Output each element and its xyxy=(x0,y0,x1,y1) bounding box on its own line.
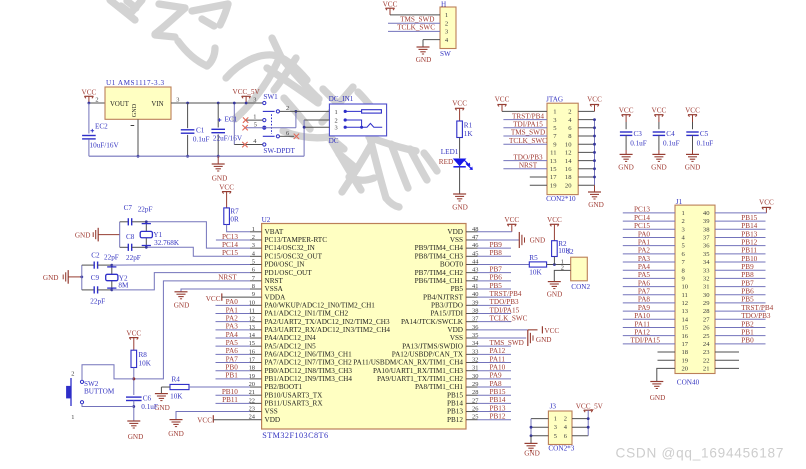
wire R1 to LED1 xyxy=(459,138,461,159)
resistor R5 10K xyxy=(529,254,546,277)
svg-text:GND: GND xyxy=(128,433,144,441)
svg-text:PB6/TIM4_CH1: PB6/TIM4_CH1 xyxy=(415,277,464,285)
wire PB15 pin28 xyxy=(478,394,512,396)
wire PB8 pin45 xyxy=(478,255,512,257)
svg-text:16: 16 xyxy=(682,333,689,340)
no-ERC mark pin1 xyxy=(243,117,248,122)
svg-text:PA13/JTMS/SWDIO: PA13/JTMS/SWDIO xyxy=(402,342,463,350)
wire TMS_SWD pin34 xyxy=(478,345,512,347)
svg-text:GND: GND xyxy=(618,163,634,171)
wire PB0 J1 pin24 xyxy=(715,343,766,345)
capacitor C9 22pF xyxy=(82,274,112,305)
svg-text:29: 29 xyxy=(703,300,710,307)
svg-text:0.1uF: 0.1uF xyxy=(697,139,714,147)
svg-text:J2: J2 xyxy=(567,248,574,256)
svg-text:PB7/TIM4_CH2: PB7/TIM4_CH2 xyxy=(415,269,464,277)
wire TRST/PB4 pin40 xyxy=(478,296,512,298)
ground (VSS pin35) xyxy=(528,330,552,346)
wire SW1 pin1 (NC) xyxy=(246,119,263,121)
wire R2 to BOOT0 node xyxy=(553,257,555,265)
wire PB14 pin27 xyxy=(478,402,512,404)
svg-text:35: 35 xyxy=(703,251,710,258)
wire PA5 pin15 xyxy=(216,345,251,347)
svg-text:GND: GND xyxy=(452,204,468,212)
svg-text:PC14/OSC32_IN: PC14/OSC32_IN xyxy=(265,244,316,252)
svg-text:2: 2 xyxy=(335,117,338,124)
no-ERC mark pin4 xyxy=(242,142,247,147)
svg-text:15: 15 xyxy=(550,166,557,173)
wire J1 pin23 stub xyxy=(715,351,739,353)
svg-text:20: 20 xyxy=(682,366,689,373)
wire PB15 J1 pin39 xyxy=(715,220,766,222)
wire PB0 pin18 xyxy=(216,370,251,372)
svg-text:8M: 8M xyxy=(118,281,129,289)
power flag VCC (VDD pin36) xyxy=(478,326,560,335)
svg-text:VCC: VCC xyxy=(587,96,602,104)
svg-text:5: 5 xyxy=(554,433,557,440)
svg-text:PA2/UART2_TX/ADC12_IN2/TIM2_CH: PA2/UART2_TX/ADC12_IN2/TIM2_CH3 xyxy=(265,318,390,326)
svg-text:39: 39 xyxy=(703,218,710,225)
svg-text:32: 32 xyxy=(703,275,710,282)
svg-text:PD1/OSC_OUT: PD1/OSC_OUT xyxy=(265,269,313,277)
wire PB10 J1 pin34 xyxy=(715,261,766,263)
svg-text:VCC: VCC xyxy=(759,199,774,207)
svg-text:0.1uF: 0.1uF xyxy=(193,135,210,143)
svg-text:PA10/UART1_RX/TIM1_CH3: PA10/UART1_RX/TIM1_CH3 xyxy=(373,367,463,375)
svg-text:15: 15 xyxy=(682,325,689,332)
wire PB10 pin21 xyxy=(216,394,251,396)
wire TCLK_SWC pin37 xyxy=(478,321,512,323)
svg-text:1: 1 xyxy=(71,414,74,421)
wire Y2 to OSC_OUT pin6 xyxy=(112,273,250,290)
svg-text:1: 1 xyxy=(335,109,338,116)
svg-text:C8: C8 xyxy=(126,233,135,241)
svg-text:3: 3 xyxy=(176,96,179,103)
wire PA10 J1 pin14 xyxy=(623,318,675,320)
wire J1 pin20 to ground xyxy=(657,368,675,381)
wire PA5 J1 pin9 xyxy=(623,277,675,279)
svg-text:C2: C2 xyxy=(91,251,100,259)
switch SW1 SW-DPDT xyxy=(253,93,295,155)
svg-text:40: 40 xyxy=(703,210,710,217)
svg-text:VIN: VIN xyxy=(151,101,163,108)
svg-text:VCC: VCC xyxy=(126,330,141,338)
wire VCC to U1 pin2 xyxy=(89,102,105,104)
wire PA11 J1 pin15 xyxy=(623,326,675,328)
ground (J1) xyxy=(650,382,666,403)
power flag VCC (VDDA pin9) xyxy=(206,293,250,302)
wire VSS pin47 to ground xyxy=(478,239,519,241)
wire NRST net xyxy=(134,281,250,379)
wire SW1 common2 to DC jack xyxy=(280,110,330,112)
wire Y2 to OSC_IN pin5 xyxy=(112,263,250,266)
svg-text:GND: GND xyxy=(547,291,563,299)
svg-text:SW: SW xyxy=(440,50,451,58)
svg-text:24: 24 xyxy=(703,341,710,348)
wire JTAG pin2 to VCC xyxy=(578,110,594,112)
wire PB11 J1 pin35 xyxy=(715,253,766,255)
svg-text:14: 14 xyxy=(682,316,689,323)
svg-text:CON40: CON40 xyxy=(677,378,700,386)
svg-text:GND: GND xyxy=(168,430,184,438)
svg-text:23: 23 xyxy=(703,349,710,356)
svg-text:13: 13 xyxy=(550,158,557,165)
wire H pin3 xyxy=(388,30,440,32)
svg-text:VCC: VCC xyxy=(219,184,234,192)
wire Y1 to PC15 pin4 xyxy=(146,247,250,256)
wire PB13 J1 pin37 xyxy=(715,236,766,238)
svg-text:32.768K: 32.768K xyxy=(154,239,180,247)
svg-text:10: 10 xyxy=(565,141,572,148)
svg-text:PB13: PB13 xyxy=(447,408,463,416)
resistor R7 0R xyxy=(224,207,239,224)
wire PC15 J1 pin3 xyxy=(623,228,675,230)
svg-text:VCC: VCC xyxy=(685,107,700,115)
connector J1 CON40 xyxy=(675,198,715,386)
svg-text:GND: GND xyxy=(651,163,667,171)
svg-text:22uF/16V: 22uF/16V xyxy=(213,134,243,142)
wire J1 pin22 stub xyxy=(715,359,739,361)
watermark xyxy=(110,0,437,207)
wire JTAG even-pin ground bus xyxy=(594,120,596,186)
svg-text:TMS_SWD: TMS_SWD xyxy=(400,15,434,23)
capacitor C6 0.1uF xyxy=(126,395,158,411)
svg-text:U2: U2 xyxy=(262,216,271,224)
svg-text:R5: R5 xyxy=(529,254,538,262)
svg-text:U1 AMS1117-3.3: U1 AMS1117-3.3 xyxy=(106,79,165,87)
capacitor EC2 10uF/16V xyxy=(82,103,119,156)
svg-text:PB10/USART3_TX: PB10/USART3_TX xyxy=(265,391,324,399)
svg-text:EC2: EC2 xyxy=(95,122,108,130)
svg-text:19: 19 xyxy=(682,357,689,364)
svg-text:EC1: EC1 xyxy=(225,115,238,123)
svg-text:TCLK_SWC: TCLK_SWC xyxy=(397,24,435,32)
svg-text:VDDA: VDDA xyxy=(265,293,287,301)
wire PA3 J1 pin7 xyxy=(623,261,675,263)
svg-text:PC15/OSC32_OUT: PC15/OSC32_OUT xyxy=(265,252,323,260)
wire PA2 pin12 xyxy=(216,321,251,323)
power flag VCC (JTAG pin1) xyxy=(495,96,510,112)
svg-text:30: 30 xyxy=(703,292,710,299)
svg-text:12: 12 xyxy=(682,300,689,307)
wire PA6 pin16 xyxy=(216,353,251,355)
wire J1 pin21 stub xyxy=(715,367,739,369)
svg-text:22pF: 22pF xyxy=(126,254,141,262)
svg-text:PA1/ADC12_IN1/TIM_CH2: PA1/ADC12_IN1/TIM_CH2 xyxy=(265,310,349,318)
wire PB5 pin41 xyxy=(478,288,512,290)
svg-text:VDD: VDD xyxy=(447,326,463,334)
svg-text:34: 34 xyxy=(703,259,710,266)
svg-text:CSDN @qq_1694456187: CSDN @qq_1694456187 xyxy=(616,446,785,461)
svg-text:CON2*10: CON2*10 xyxy=(546,195,576,203)
svg-text:22: 22 xyxy=(703,357,710,364)
svg-text:VCC: VCC xyxy=(383,1,398,9)
svg-text:PB1/ADC12_IN9/TIM3_CH4: PB1/ADC12_IN9/TIM3_CH4 xyxy=(265,375,353,383)
capacitor C2 22pF xyxy=(82,251,119,268)
svg-text:2: 2 xyxy=(445,20,448,27)
svg-text:CON2: CON2 xyxy=(571,283,590,291)
wire PA12 pin33 xyxy=(478,353,512,355)
wire JTAG row 3 xyxy=(503,127,547,129)
svg-text:25: 25 xyxy=(703,333,710,340)
wire SW1 pin4 riser to VCC_5V xyxy=(233,103,235,145)
wire PA9 pin30 xyxy=(478,378,512,380)
wire PC14 J1 pin2 xyxy=(623,220,675,222)
svg-text:3: 3 xyxy=(554,424,557,431)
wire J1 pin18 stub xyxy=(658,351,676,353)
svg-text:PA7/ADC12_IN7/TIM3_CH2: PA7/ADC12_IN7/TIM3_CH2 xyxy=(265,359,353,367)
svg-text:10K: 10K xyxy=(170,393,183,401)
wire PB7 pin43 xyxy=(478,272,512,274)
svg-text:16: 16 xyxy=(565,166,572,173)
svg-text:VCC: VCC xyxy=(619,107,634,115)
svg-text:PB2/BOOT1: PB2/BOOT1 xyxy=(265,383,303,391)
svg-text:10K: 10K xyxy=(139,360,152,368)
power flag VCC_5V (J3) xyxy=(576,402,604,412)
wire JTAG pin17 stub xyxy=(530,176,547,178)
svg-text:VBAT: VBAT xyxy=(265,228,284,236)
svg-text:VSS: VSS xyxy=(450,334,463,342)
svg-text:GND: GND xyxy=(131,103,138,117)
capacitor C5 0.1uF xyxy=(685,107,713,172)
wire TDO/PB3 pin39 xyxy=(478,304,512,306)
wire BOOT0 pin44 to R5 xyxy=(478,263,530,265)
connector J2 CON2 xyxy=(561,248,591,291)
svg-text:22pF: 22pF xyxy=(138,206,153,214)
wire PB9 pin46 xyxy=(478,247,512,249)
wire PA4 J1 pin8 xyxy=(623,269,675,271)
svg-text:1: 1 xyxy=(445,12,448,19)
svg-text:PB14: PB14 xyxy=(447,399,463,407)
capacitor C3 0.1uF xyxy=(618,107,646,172)
ground (power rail) xyxy=(212,156,228,182)
svg-text:VCC: VCC xyxy=(197,417,212,425)
svg-text:LED1: LED1 xyxy=(441,148,459,156)
svg-text:17: 17 xyxy=(550,174,557,181)
svg-text:VCC: VCC xyxy=(652,107,667,115)
svg-text:VCC: VCC xyxy=(544,327,559,335)
wire SW2 top to NRST node xyxy=(82,365,134,380)
wire JTAG pin1 xyxy=(502,110,547,112)
wire PA9 J1 pin13 xyxy=(623,310,675,312)
switch SW2 BUTTOM xyxy=(67,370,115,421)
wire R4 to ground xyxy=(161,386,170,388)
ground (VSS pin23) xyxy=(168,420,184,439)
svg-text:3: 3 xyxy=(335,125,338,132)
svg-text:C9: C9 xyxy=(91,274,100,282)
svg-text:C5: C5 xyxy=(700,130,709,138)
svg-text:PB9/TIM4_CH4: PB9/TIM4_CH4 xyxy=(415,244,464,252)
svg-text:GND: GND xyxy=(416,56,432,64)
svg-text:R4: R4 xyxy=(172,376,181,384)
wire JTAG row 7 xyxy=(503,160,547,162)
wire VSS pin35 to ground xyxy=(478,337,527,339)
svg-text:VSS: VSS xyxy=(265,408,278,416)
svg-text:BUTTOM: BUTTOM xyxy=(84,387,115,395)
wire CON2 pin2 to ground xyxy=(554,270,570,281)
ground (Y2) xyxy=(43,270,83,284)
capacitor C1 0.1uF xyxy=(181,102,210,158)
wire PB6 J1 pin30 xyxy=(715,294,766,296)
wire LED1 to ground xyxy=(459,167,461,194)
svg-text:STM32F103C8T6: STM32F103C8T6 xyxy=(262,431,328,440)
svg-text:GND: GND xyxy=(530,237,546,245)
svg-text:GND: GND xyxy=(650,394,666,402)
svg-text:CON2*3: CON2*3 xyxy=(548,445,574,453)
svg-text:PB11/USART3_RX: PB11/USART3_RX xyxy=(265,399,324,407)
wire PB7 J1 pin31 xyxy=(715,286,766,288)
wire DC jack pins 2-3 to ground rail xyxy=(304,119,329,121)
svg-text:33: 33 xyxy=(703,267,710,274)
svg-text:28: 28 xyxy=(703,308,710,315)
svg-text:PB15: PB15 xyxy=(447,391,463,399)
svg-text:PA9/UART1_TX/TIM1_CH2: PA9/UART1_TX/TIM1_CH2 xyxy=(377,375,463,383)
wire ground rail xyxy=(89,155,304,157)
svg-text:PB0/ADC12_IN8/TIM3_CH3: PB0/ADC12_IN8/TIM3_CH3 xyxy=(265,367,353,375)
wire J3 even pins to VCC_5V xyxy=(572,418,588,420)
svg-text:31: 31 xyxy=(703,284,710,291)
wire PB5 J1 pin29 xyxy=(715,302,766,304)
wire PB1 J1 pin25 xyxy=(715,335,766,337)
svg-text:PA14/JTCK/SWCLK: PA14/JTCK/SWCLK xyxy=(401,318,464,326)
wire PA0 J1 pin4 xyxy=(623,236,675,238)
wire R5 to CON2 pin1 xyxy=(547,263,571,265)
wire PB14 J1 pin38 xyxy=(715,228,766,230)
power flag VCC (R7) xyxy=(219,184,234,208)
wire J3 odd pins to ground xyxy=(531,418,548,420)
svg-text:0R: 0R xyxy=(230,216,239,224)
wire U1 pin3 rail to switch xyxy=(171,102,263,104)
wire H pin1 to VCC xyxy=(390,14,440,16)
svg-text:VDD: VDD xyxy=(447,228,463,236)
svg-text:C6: C6 xyxy=(143,395,152,403)
svg-text:PA12/USBDP/CAN_TX: PA12/USBDP/CAN_TX xyxy=(392,350,464,358)
svg-text:C1: C1 xyxy=(196,127,205,135)
wire JTAG row 5 xyxy=(503,143,547,145)
svg-text:GND: GND xyxy=(536,336,552,344)
resistor R1 1K xyxy=(457,121,474,138)
svg-text:PB3/JTDO: PB3/JTDO xyxy=(431,301,463,309)
wire PA3 pin13 xyxy=(216,329,251,331)
svg-text:PA11/USBDM/CAN_RX/TIM1_CH4: PA11/USBDM/CAN_RX/TIM1_CH4 xyxy=(353,359,463,367)
svg-text:3: 3 xyxy=(253,96,256,103)
power flag VCC (regulator output) xyxy=(82,88,97,103)
svg-text:0.1uF: 0.1uF xyxy=(630,139,647,147)
wire PB2 J1 pin26 xyxy=(715,326,766,328)
wire H pin2 xyxy=(388,22,440,24)
wire PA8 J1 pin12 xyxy=(623,302,675,304)
wire JTAG row 4 xyxy=(503,135,547,137)
svg-text:BOOT0: BOOT0 xyxy=(440,261,464,269)
wire PB13 pin26 xyxy=(478,411,512,413)
svg-text:18: 18 xyxy=(565,174,572,181)
svg-text:PB12: PB12 xyxy=(447,416,463,424)
svg-text:22pF: 22pF xyxy=(104,254,119,262)
svg-text:1: 1 xyxy=(682,210,685,217)
svg-text:10K: 10K xyxy=(529,269,542,277)
no-ERC mark pin5 xyxy=(242,125,247,130)
svg-text:SW-DPDT: SW-DPDT xyxy=(263,147,295,155)
svg-text:37: 37 xyxy=(703,235,710,242)
svg-text:13: 13 xyxy=(682,308,689,315)
ground (J3) xyxy=(524,443,540,457)
svg-text:J3: J3 xyxy=(550,403,557,411)
svg-text:PB5: PB5 xyxy=(451,285,464,293)
capacitor C8 22pF xyxy=(120,233,147,262)
power flag VCC_5V xyxy=(233,88,261,104)
svg-text:VOUT: VOUT xyxy=(110,101,130,108)
svg-text:12: 12 xyxy=(565,150,572,157)
wire PA1 J1 pin5 xyxy=(623,245,675,247)
svg-text:VSS: VSS xyxy=(450,236,463,244)
wire PA7 pin17 xyxy=(216,362,251,364)
svg-text:GND: GND xyxy=(43,274,59,282)
regulator U1 AMS1117-3.3 xyxy=(95,79,179,125)
svg-text:VDD: VDD xyxy=(265,416,281,424)
svg-text:C7: C7 xyxy=(124,204,133,212)
wire PB1 pin19 xyxy=(216,378,251,380)
svg-text:PA0/WKUP/ADC12_IN0/TIM2_CH1: PA0/WKUP/ADC12_IN0/TIM2_CH1 xyxy=(265,301,376,309)
svg-text:19: 19 xyxy=(550,182,557,189)
wire PB8 J1 pin32 xyxy=(715,277,766,279)
svg-text:GND: GND xyxy=(685,163,701,171)
svg-text:R8: R8 xyxy=(139,351,148,359)
wire C6 to ground xyxy=(133,401,135,422)
wire R4 to BOOT1 pin20 xyxy=(189,386,250,388)
svg-text:2: 2 xyxy=(564,416,567,423)
ground (C6) xyxy=(127,421,143,441)
svg-text:PA5/ADC12_IN5: PA5/ADC12_IN5 xyxy=(265,342,317,350)
svg-text:SW1: SW1 xyxy=(263,93,278,101)
wire J1 pin19 stub xyxy=(658,359,676,361)
wire PA11 pin32 xyxy=(478,362,512,364)
svg-text:PB4/NJTRST: PB4/NJTRST xyxy=(423,293,464,301)
ground (header H) xyxy=(416,47,432,64)
power flag VCC (JTAG pin2) xyxy=(587,96,602,112)
wire PB6 pin42 xyxy=(478,280,512,282)
wire PA8 pin29 xyxy=(478,386,512,388)
power flag VCC (R2) xyxy=(547,216,562,241)
wire PB11 pin22 xyxy=(216,402,251,404)
svg-text:GND: GND xyxy=(75,231,91,239)
wire Y1 to PC14 pin3 xyxy=(146,222,250,248)
svg-text:NRST: NRST xyxy=(265,277,284,285)
svg-text:DC_IN1: DC_IN1 xyxy=(329,95,354,103)
wire H pin4 to ground xyxy=(423,39,440,41)
svg-text:RED: RED xyxy=(439,158,453,166)
svg-text:6: 6 xyxy=(564,433,567,440)
ground (Y1) xyxy=(75,228,120,242)
svg-text:C3: C3 xyxy=(634,130,643,138)
power flag VCC (LED) xyxy=(452,100,467,121)
wire PB12 J1 pin36 xyxy=(715,245,766,247)
ground (R4) xyxy=(154,394,170,413)
svg-text:2: 2 xyxy=(682,218,685,225)
svg-text:PD0/OSC_IN: PD0/OSC_IN xyxy=(265,261,306,269)
wire JTAG row 2 xyxy=(503,119,547,121)
svg-text:2: 2 xyxy=(95,96,98,103)
power flag VCC (R8) xyxy=(126,330,141,351)
wire PA12 J1 pin16 xyxy=(623,335,675,337)
ground (VSS pin47) xyxy=(519,232,545,248)
wire SW2 bottom to ground xyxy=(82,404,134,407)
wire PA2 J1 pin6 xyxy=(623,253,675,255)
svg-text:C4: C4 xyxy=(666,130,675,138)
svg-text:26: 26 xyxy=(703,325,710,332)
svg-text:GND: GND xyxy=(212,175,228,183)
wire PC13 J1 pin1 xyxy=(623,212,675,214)
wire PA10 pin31 xyxy=(478,370,512,372)
